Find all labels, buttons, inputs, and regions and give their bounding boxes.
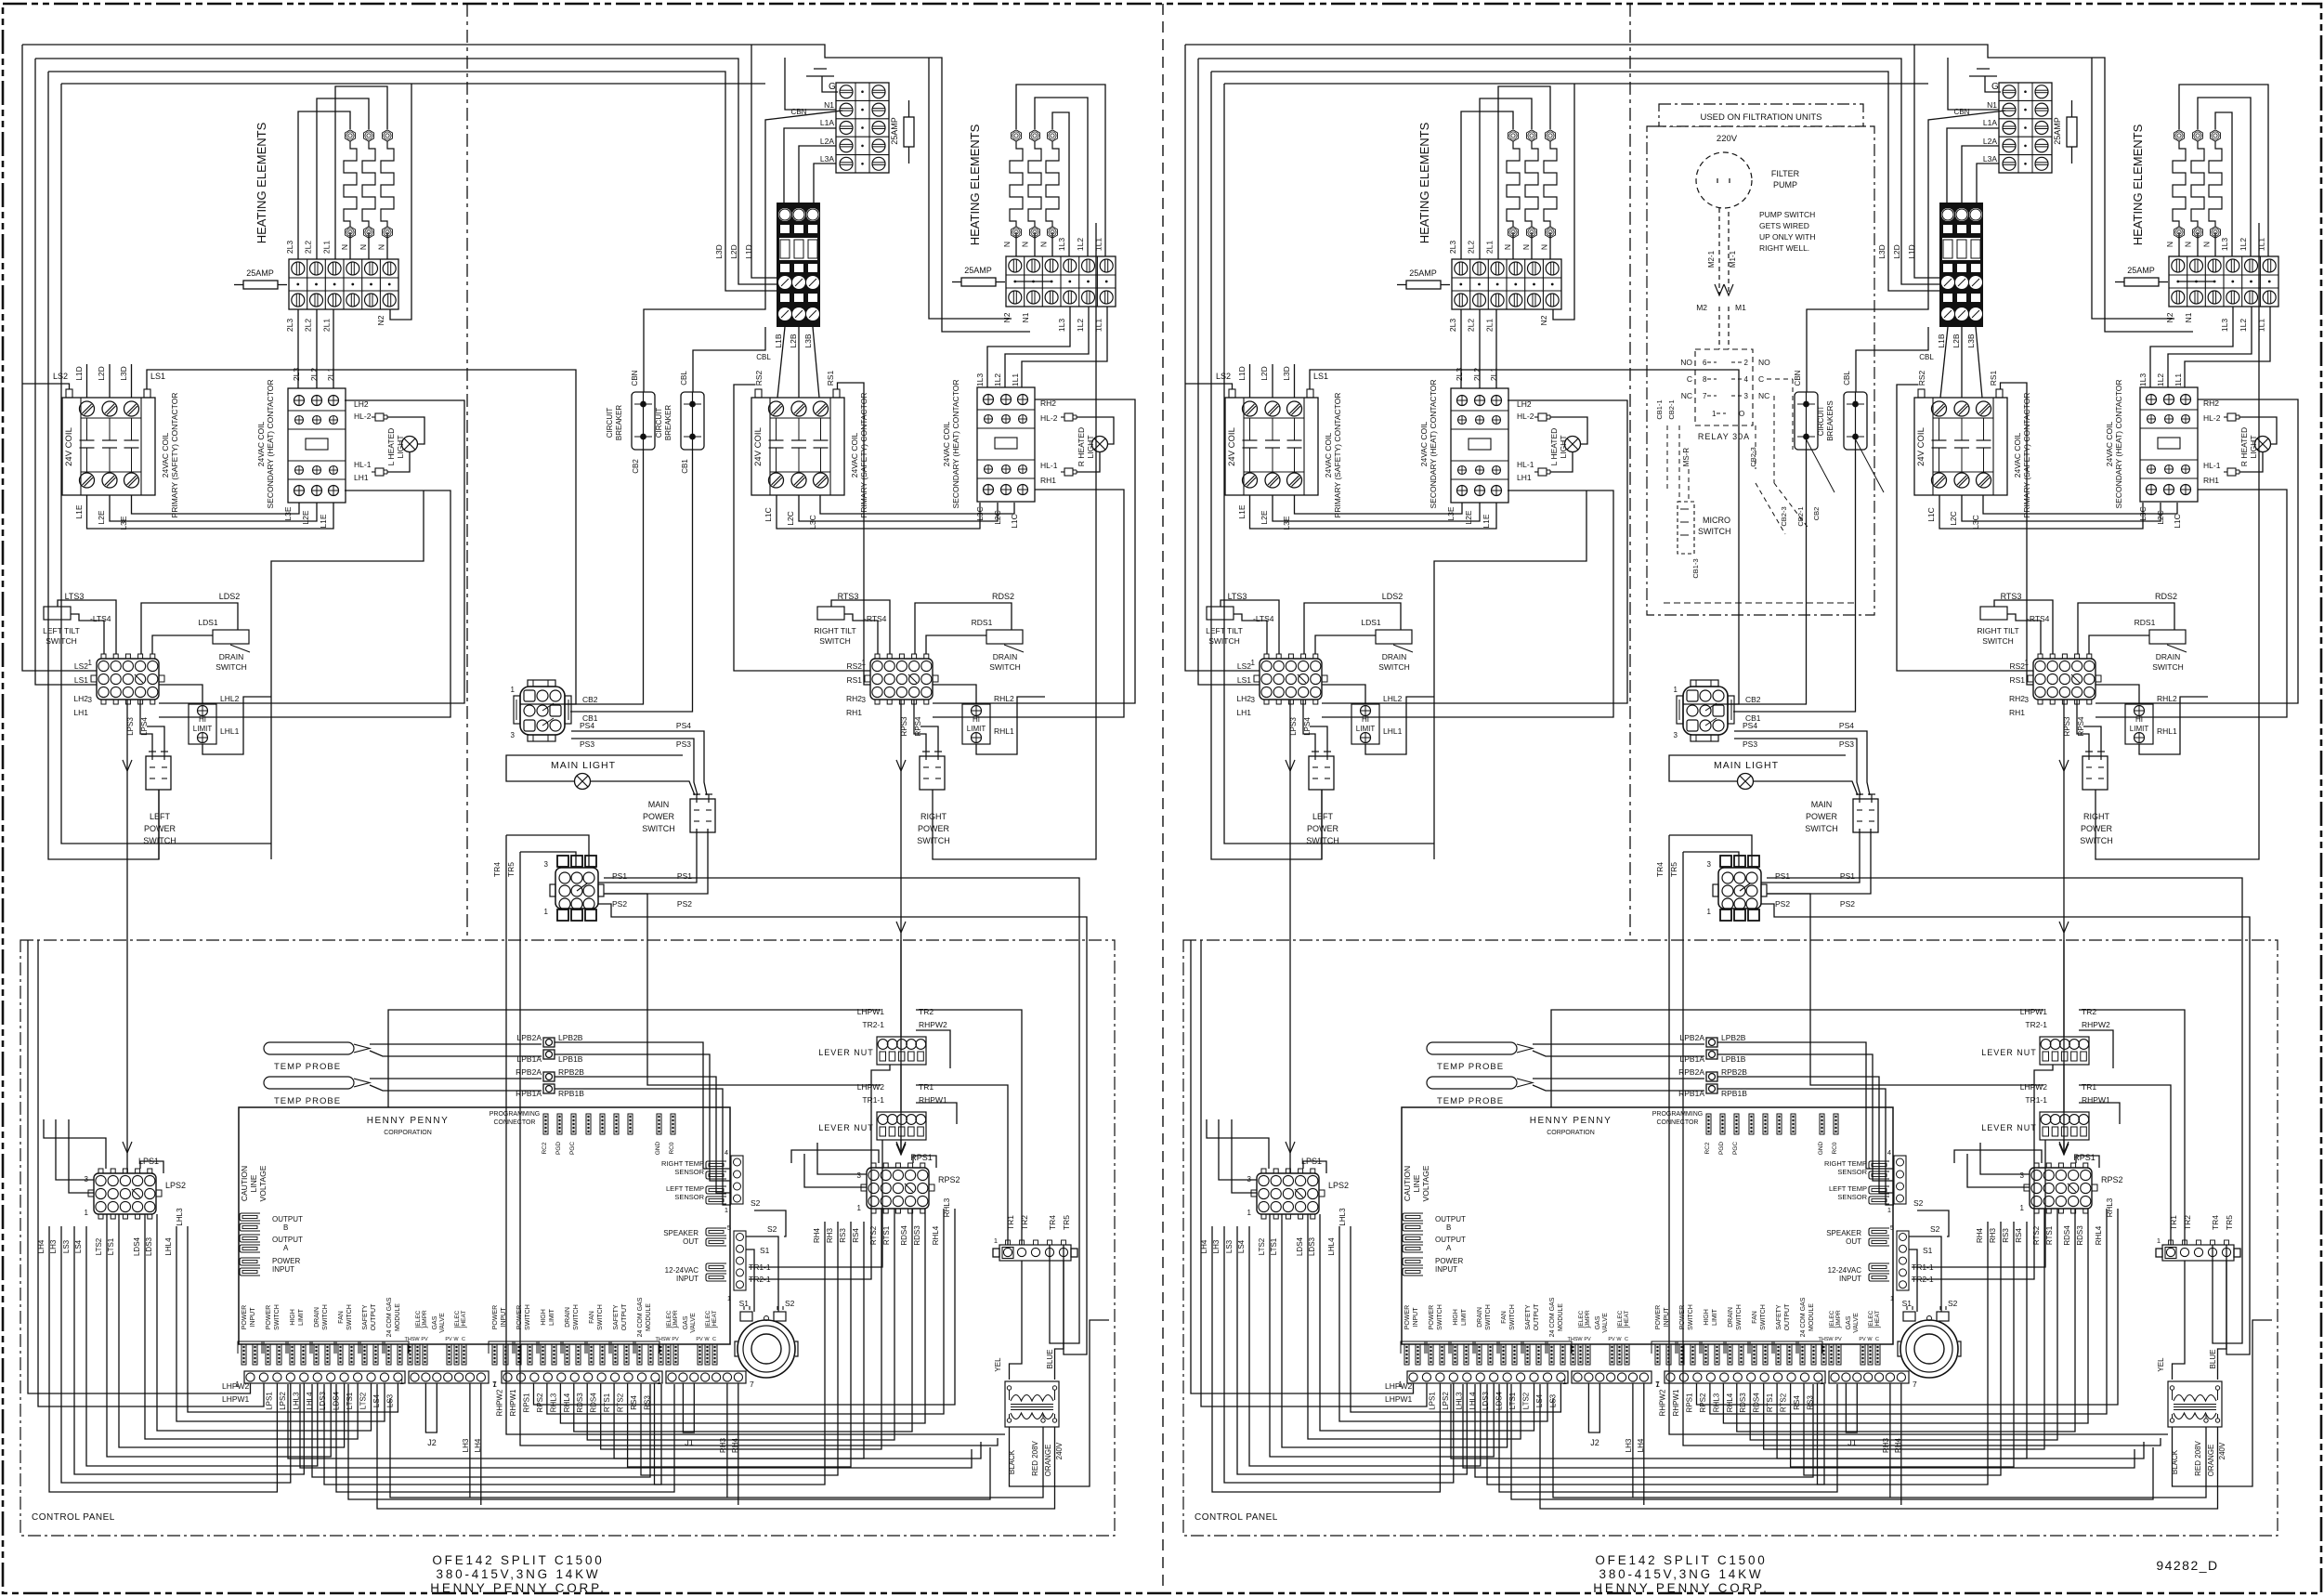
svg-text:6: 6 [1703,359,1707,367]
svg-text:CB2-1: CB2-1 [1667,399,1676,419]
svg-text:RELAY 30A: RELAY 30A [1698,432,1750,441]
svg-text:BREAKER: BREAKER [615,405,623,440]
svg-text:MS-R: MS-R [1682,448,1691,467]
svg-text:7: 7 [1703,392,1707,400]
fold line right page [1629,4,1631,940]
svg-text:220V: 220V [1717,134,1738,144]
left page schematic [20,45,1135,1595]
relay 30A [1695,349,1753,425]
breaker actuator diagonals [1806,438,1834,492]
svg-text:NO: NO [1680,358,1692,367]
svg-text:M1: M1 [1735,303,1746,312]
svg-text:3: 3 [1744,392,1749,400]
svg-text:M2: M2 [1696,303,1707,312]
svg-text:BREAKERS: BREAKERS [1826,400,1834,441]
svg-text:1: 1 [1712,410,1717,418]
svg-text:USED ON FILTRATION UNITS: USED ON FILTRATION UNITS [1700,112,1821,123]
svg-text:C: C [1687,374,1692,384]
right page schematic (duplicate) [1183,45,2298,1595]
svg-text:PUMP: PUMP [1773,180,1797,190]
svg-text:CB1: CB1 [681,459,689,474]
svg-text:CIRCUIT: CIRCUIT [655,408,663,438]
wire pump leads M2-1 M1-1 [1718,208,1720,295]
svg-text:RIGHT WELL.: RIGHT WELL. [1759,243,1809,253]
svg-text:UP ONLY WITH: UP ONLY WITH [1759,232,1815,242]
svg-text:MICRO: MICRO [1703,516,1730,525]
svg-text:CB1-3: CB1-3 [1691,558,1700,578]
svg-text:CB2-3: CB2-3 [1780,506,1788,526]
svg-text:2: 2 [1744,359,1749,367]
svg-text:CB2: CB2 [632,459,640,474]
svg-text:CB2: CB2 [1812,507,1821,521]
svg-text:CIRCUIT: CIRCUIT [1817,406,1825,437]
fold line left page [466,4,468,940]
inner dashed rect [1664,602,1855,604]
svg-text:94282_D: 94282_D [2156,1558,2218,1573]
svg-text:BREAKER: BREAKER [664,405,672,440]
page divider [1162,4,1164,1593]
svg-text:CIRCUIT: CIRCUIT [606,408,614,438]
svg-text:FILTER: FILTER [1771,169,1800,178]
filtration units box [1647,126,1874,615]
svg-text:NO: NO [1758,358,1770,367]
svg-text:SWITCH: SWITCH [1698,527,1731,536]
svg-text:O: O [1739,410,1744,418]
filtration dashed links [1756,483,1785,534]
micro switch [1678,502,1694,554]
svg-text:CB1-1: CB1-1 [1655,399,1664,419]
svg-text:M1-1: M1-1 [1729,250,1737,268]
svg-text:NC: NC [1758,391,1769,400]
svg-text:GETS WIRED: GETS WIRED [1759,221,1809,230]
svg-text:NC: NC [1681,391,1692,400]
svg-text:PUMP SWITCH: PUMP SWITCH [1759,210,1815,219]
svg-text:M2-1: M2-1 [1707,250,1716,268]
svg-text:4: 4 [1744,375,1749,384]
svg-text:C: C [1758,374,1764,384]
svg-text:CB2-3: CB2-3 [1749,447,1757,466]
svg-text:CB2-1: CB2-1 [1796,506,1805,526]
svg-text:8: 8 [1703,375,1707,384]
